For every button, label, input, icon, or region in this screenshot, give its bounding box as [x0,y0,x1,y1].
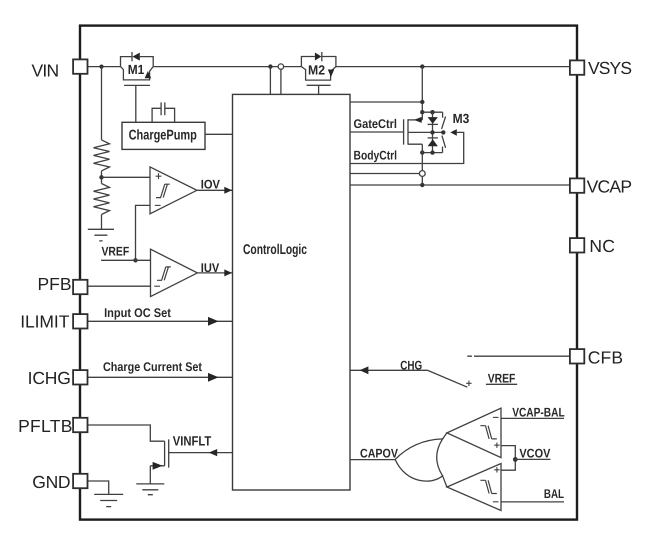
node rail to ControlLogic dot [268,64,272,68]
wire BodyCtrl [350,132,464,163]
wire VCAP-BAL input [501,417,564,419]
wire ILIMIT Input OC Set [88,320,233,322]
svg-text:VCOV: VCOV [519,446,551,460]
ground divider [88,229,114,241]
pin PFB [73,280,87,294]
svg-text:ICHG: ICHG [28,368,71,388]
pin PFLTB [73,418,87,432]
resistor R2 [94,184,110,215]
pin VCAP [570,178,584,192]
transistor M3 fet [404,119,408,144]
wire VCAP line [350,184,570,186]
op-amp VCAP-BAL comparator [447,408,501,458]
wire GND pin [88,481,109,494]
node M3 bottom [422,152,442,154]
wire R2 to ground [101,215,103,230]
wire top rail M2 to VSYS [336,66,570,68]
svg-text:BodyCtrl: BodyCtrl [354,149,398,163]
ground Q1 source [136,484,164,495]
wire VREF [101,259,150,261]
node plus CHG [466,381,471,386]
svg-text:VSYS: VSYS [588,58,632,78]
wire CAPOV [350,459,395,461]
wire PFLTB to Q1 drain [88,425,165,441]
pin CFB [570,349,584,363]
wire M3 drain [408,119,422,121]
pin VIN [73,59,87,73]
block ChargePump [122,122,205,149]
wire divider from rail [101,67,103,140]
wire M3 to VCAP [421,153,423,185]
svg-text:BAL: BAL [544,487,564,501]
svg-text:IOV: IOV [201,177,221,191]
transistor M1 body diode [121,52,154,67]
block ControlLogic [233,94,351,490]
wire CFB line [467,355,570,357]
svg-text:GateCtrl: GateCtrl [354,117,398,131]
svg-text:Input OC Set: Input OC Set [104,306,171,320]
wire tap to IOV+ [102,176,151,178]
svg-text:PFB: PFB [38,274,72,294]
wire rail sense into ControlLogic [269,67,271,95]
transistor M2 [301,67,336,81]
wire CHG [350,370,467,387]
svg-text:VCAP-BAL: VCAP-BAL [512,405,565,419]
svg-text:CHG: CHG [400,358,422,372]
wire BAL input [501,501,564,503]
wire GateCtrl top [350,101,422,103]
pin ILIMIT [73,314,87,328]
wire M3 source [408,144,422,152]
node rail M3 junction [420,64,424,68]
op-amp IOV comparator [150,167,197,214]
wire ICHG Charge Current Set [88,376,233,378]
svg-text:M3: M3 [453,111,470,126]
pin NC [570,238,584,252]
wire IOV output [197,189,233,191]
svg-text:M2: M2 [308,62,325,77]
wire GateCtrl [350,131,404,133]
transistor Q1 VINFLT [165,439,169,467]
node VREF junction [133,258,137,262]
switch blade top [442,117,446,129]
svg-text:ChargePump: ChargePump [129,128,198,144]
diode D1 [428,117,438,124]
transistor M1 [121,67,154,80]
wire VCAP sense [350,173,419,175]
wire IUV output [197,272,232,274]
wire VSYS to M3 [421,67,423,120]
wire rail sense 2 into ControlLogic [280,69,282,94]
IC boundary [80,26,577,520]
svg-text:IUV: IUV [201,261,220,275]
svg-text:CAPOV: CAPOV [360,446,398,460]
wire IOV minus to VREF [136,205,151,260]
wire VREF underline right [486,383,517,385]
node divider tap [99,175,103,179]
wire M3 body node [408,131,443,133]
pin VSYS [570,60,584,74]
svg-text:GND: GND [32,472,70,492]
svg-text:VREF: VREF [488,371,516,385]
svg-text:VINFLT: VINFLT [173,434,212,449]
pin GND [73,474,87,488]
wire top rail M1 to M2 [153,66,301,68]
wire VINFLT gate [169,452,233,454]
wire VCOV to comparators [501,446,515,471]
wire PFB to IUV minus [88,285,151,287]
transistor M2 body diode [301,52,336,67]
node VCOV [513,457,518,462]
svg-text:CFB: CFB [588,347,623,367]
wire Q1 source [150,466,164,484]
node M3 top [420,110,424,114]
gate OR CAPOV [395,439,443,481]
svg-text:PFLTB: PFLTB [18,416,72,436]
op-amp VCOV comparator [447,464,501,511]
svg-text:VREF: VREF [102,245,130,259]
pin ICHG [73,370,87,384]
diode D2 [428,137,438,139]
svg-text:ControlLogic: ControlLogic [243,242,307,258]
wire R1 to R2 [101,171,103,184]
node open circle sense [419,171,425,177]
svg-text:VIN: VIN [32,61,60,81]
svg-text:M1: M1 [128,62,145,77]
wire top rail VIN to M1 [88,66,121,68]
switch blade bottom [442,136,446,153]
wire VCOV label line [515,458,550,460]
wire M3 diode column [432,112,434,152]
resistor R1 [94,140,110,171]
ground GND pin [94,494,123,506]
svg-text:NC: NC [589,236,615,256]
svg-text:VCAP: VCAP [587,176,632,196]
wire ChargePump output [205,133,233,135]
svg-text:ILIMIT: ILIMIT [20,312,69,332]
op-amp IUV comparator [151,249,198,296]
node open circle on rail [278,64,283,69]
capacitor flying cap [152,102,175,122]
node VIN rail junction [99,65,103,69]
svg-text:Charge Current Set: Charge Current Set [103,360,203,374]
